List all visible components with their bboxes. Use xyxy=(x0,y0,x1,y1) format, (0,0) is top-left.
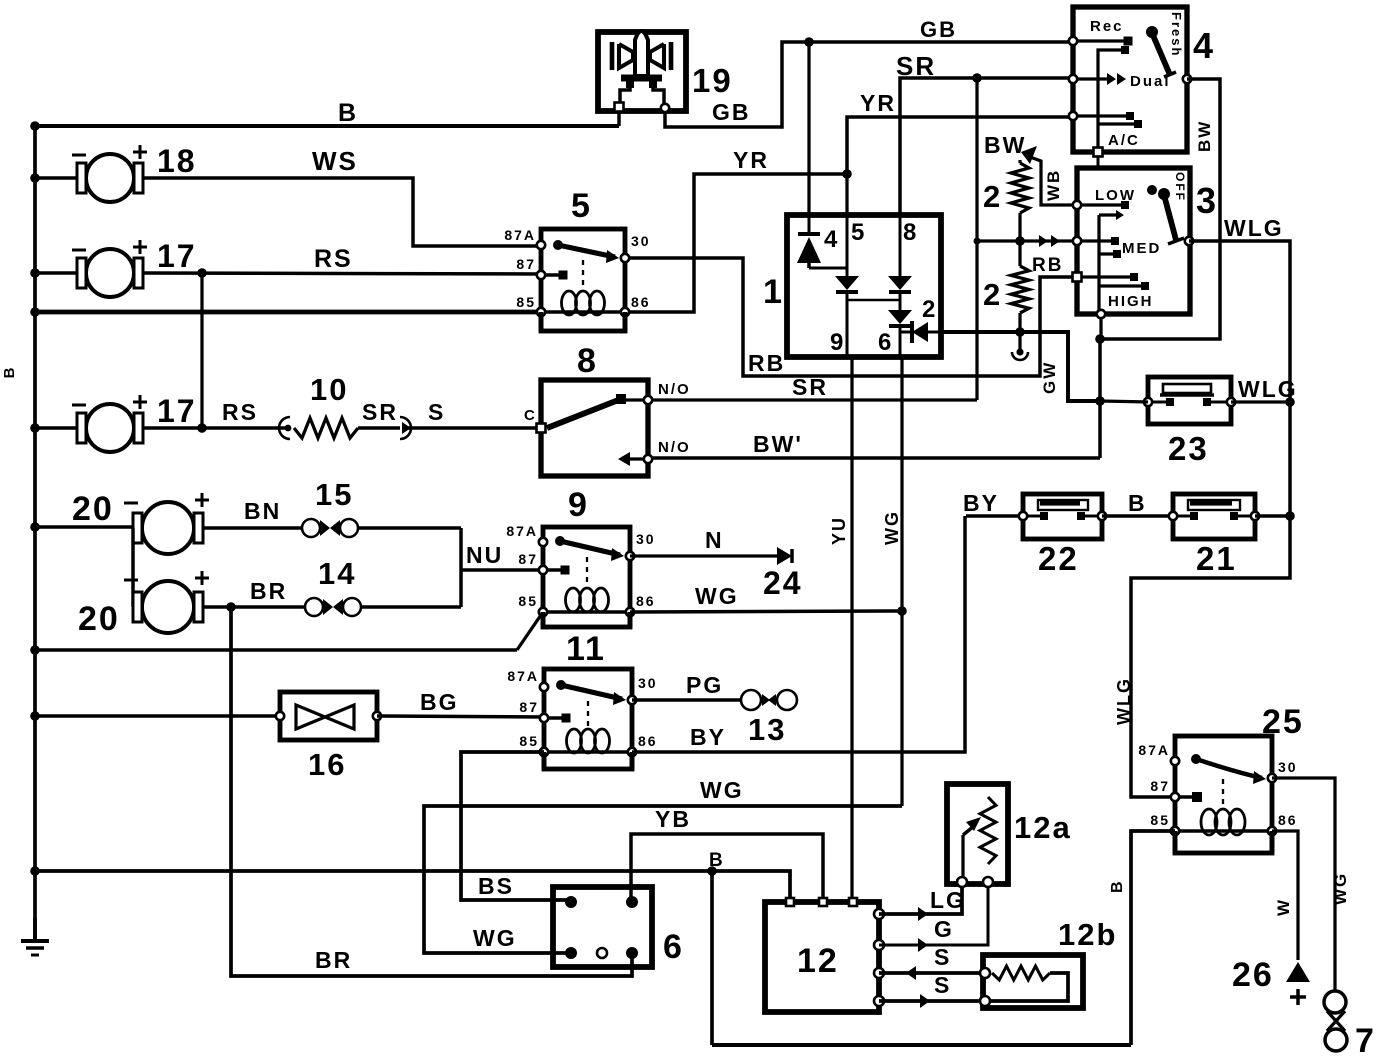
svg-text:85: 85 xyxy=(1150,812,1170,828)
switch 4 common stub to switch 3 xyxy=(1096,157,1099,168)
svg-text:RS: RS xyxy=(314,245,353,273)
horn 19 box xyxy=(598,32,686,111)
svg-text:WB: WB xyxy=(1044,169,1063,201)
resistor 2 lower xyxy=(1011,266,1029,313)
svg-text:BR: BR xyxy=(315,947,352,973)
relay 5 box xyxy=(541,229,625,331)
svg-text:BW: BW xyxy=(1195,120,1214,152)
wire fuse 21 to WLG vertical xyxy=(1255,514,1290,517)
svg-text:WG: WG xyxy=(700,777,744,803)
svg-text:YU: YU xyxy=(829,516,849,545)
motor 20 link (minus side) xyxy=(131,528,134,607)
relay 25 bottom edge xyxy=(1173,831,1178,853)
connector pin at resistor 10 right xyxy=(358,426,400,429)
wire switch 3 common down to BW xyxy=(1099,314,1102,339)
node RS junction xyxy=(197,268,207,278)
svg-text:87: 87 xyxy=(519,699,539,715)
svg-text:YB: YB xyxy=(655,806,691,832)
svg-text:W: W xyxy=(1274,898,1293,916)
wire BY from relay 11 86 xyxy=(632,516,965,752)
svg-text:WG: WG xyxy=(882,510,902,545)
svg-text:87A: 87A xyxy=(1138,742,1170,758)
svg-text:WG: WG xyxy=(695,583,739,609)
relay 9 85-86 line xyxy=(543,610,630,613)
svg-text:WLG: WLG xyxy=(1114,677,1134,725)
svg-text:24: 24 xyxy=(763,565,803,601)
wire 23 left lead xyxy=(1100,401,1148,402)
blower switch 3 box xyxy=(1077,168,1190,314)
box 6 terminals xyxy=(565,896,577,908)
resistor 2 upper xyxy=(1018,160,1021,163)
amplifier box 1 xyxy=(787,215,941,357)
fuse 22 box xyxy=(1023,494,1102,539)
wire WG from relay 25 30 to connector 7 xyxy=(1272,778,1335,992)
switch 8 lower contact xyxy=(626,457,648,460)
wire YB unit 12 to box 6 xyxy=(631,834,823,903)
diode D8 (pin 8 branch) xyxy=(898,215,901,276)
svg-text:30: 30 xyxy=(631,233,651,249)
wire B top horizontal xyxy=(35,124,619,128)
wire BW vertical to relay 8 line xyxy=(1098,339,1101,458)
svg-text:86: 86 xyxy=(636,593,656,609)
socket terminal below resistor chain xyxy=(1016,348,1023,355)
svg-text:3: 3 xyxy=(1196,180,1218,221)
node bus-B junction dots xyxy=(30,121,40,131)
svg-text:14: 14 xyxy=(318,556,356,591)
svg-text:87: 87 xyxy=(1150,778,1170,794)
relay 11 85-86 line xyxy=(544,750,632,753)
svg-text:B: B xyxy=(709,850,725,871)
relay 25 box xyxy=(1175,736,1272,853)
svg-text:30: 30 xyxy=(638,675,658,691)
relay 11 box xyxy=(544,669,632,769)
horn 19 icon xyxy=(635,31,648,76)
svg-text:25: 25 xyxy=(1262,703,1304,741)
diode D5 (pin 5 branch) xyxy=(845,215,848,276)
fuse 21 element xyxy=(1188,500,1240,510)
svg-text:21: 21 xyxy=(1196,540,1237,577)
svg-text:16: 16 xyxy=(308,747,346,782)
svg-text:2: 2 xyxy=(983,179,1002,214)
wire WB to switch 3 LOW xyxy=(1030,157,1077,205)
relay 5 dashed link xyxy=(582,260,584,289)
svg-text:MED: MED xyxy=(1122,240,1161,257)
svg-text:HIGH: HIGH xyxy=(1108,293,1154,310)
wire BG to relay 11 87 xyxy=(377,716,544,717)
svg-text:12: 12 xyxy=(797,942,839,980)
wire bus to motor 17 upper xyxy=(35,271,77,274)
wire 85 feed line (bus y650) xyxy=(35,648,517,651)
svg-text:A/C: A/C xyxy=(1108,132,1140,149)
wire NU to relay 9 87 xyxy=(461,568,543,571)
svg-text:4: 4 xyxy=(1193,25,1215,66)
svg-text:19: 19 xyxy=(692,62,733,99)
wire BR motor 20 to valve 14 xyxy=(203,605,306,608)
diode D2 (pin 2, horizontal) xyxy=(900,330,912,333)
svg-text:2: 2 xyxy=(922,296,937,323)
svg-text:NU: NU xyxy=(466,542,503,568)
node BW junction at switch 3 common xyxy=(1095,334,1105,344)
svg-text:87A: 87A xyxy=(504,227,536,243)
wire B between fuses xyxy=(1102,514,1173,517)
relay 9 box xyxy=(543,527,630,627)
svg-text:1: 1 xyxy=(763,273,784,311)
svg-text:C: C xyxy=(524,407,537,424)
switch 3 LOW contacts xyxy=(1077,203,1122,206)
wire B from relay 25 85 down to bottom run xyxy=(1131,831,1175,1045)
sensor 12a resistor xyxy=(980,797,996,864)
wire NU vertical link xyxy=(459,528,462,607)
wire BG bus to valve 16 xyxy=(35,714,280,717)
wire 85 line bus to relay 5 xyxy=(35,310,541,315)
relay 9 bottom edge xyxy=(541,612,546,627)
relay 9 dashed link xyxy=(586,557,588,586)
wire WLG from switch 3 arm to right side xyxy=(1131,241,1290,797)
svg-text:WS: WS xyxy=(312,146,358,176)
fuse 22 contacts xyxy=(1023,514,1041,517)
svg-text:85: 85 xyxy=(516,294,536,310)
wire SR top from amplifier pin 8 to switch 4 Dual xyxy=(900,78,1073,215)
wire B bus to unit 12 xyxy=(35,871,790,903)
wire resistor bottom stub to socket xyxy=(1018,313,1021,332)
svg-text:B: B xyxy=(1,366,18,379)
node SR-resistor tap xyxy=(974,238,981,245)
relay 5 bottom edge xyxy=(539,312,544,331)
node YR junction xyxy=(842,169,852,179)
svg-text:YR: YR xyxy=(860,90,896,116)
fuse 21 box xyxy=(1173,494,1255,539)
svg-text:26: 26 xyxy=(1232,956,1274,994)
pressure switch 8 box xyxy=(541,380,648,476)
horn 19 terminal wires xyxy=(620,84,630,103)
svg-text:BR: BR xyxy=(250,578,287,604)
svg-text:N/O: N/O xyxy=(658,381,691,398)
wire WG from relay 9 86 xyxy=(630,611,902,612)
wire WG vertical from amplifier pin 6 xyxy=(900,357,903,806)
svg-text:SR: SR xyxy=(362,399,398,425)
node BW-23 junction xyxy=(1095,396,1105,406)
connector 13 xyxy=(741,690,761,710)
svg-text:85: 85 xyxy=(519,733,539,749)
relay 11 arm xyxy=(556,680,566,690)
svg-text:13: 13 xyxy=(748,712,786,747)
relay 9 coil xyxy=(566,588,581,612)
relay 5 coil xyxy=(562,291,577,315)
connector socket at resistor 10 left xyxy=(279,417,290,439)
relay 9 87 contact xyxy=(543,568,562,571)
svg-text:9: 9 xyxy=(830,329,845,356)
wire GB branch to amplifier pin 4 xyxy=(807,42,810,215)
wire SR lower from pressure switch 8 xyxy=(648,398,977,401)
svg-text:7: 7 xyxy=(1355,1022,1376,1054)
wire BN motor 20 to valve 15 xyxy=(203,526,304,529)
wire horn left lead to B line xyxy=(617,111,620,126)
svg-text:5: 5 xyxy=(571,187,592,225)
svg-text:WLG: WLG xyxy=(1238,376,1298,402)
svg-text:N/O: N/O xyxy=(658,439,691,456)
svg-text:85: 85 xyxy=(518,593,538,609)
valve 14 xyxy=(305,598,323,616)
node RS-17 junction xyxy=(197,423,207,433)
wire RS link vertical xyxy=(200,273,203,428)
svg-text:S: S xyxy=(934,972,951,998)
svg-text:20: 20 xyxy=(78,600,120,638)
relay 25 coil xyxy=(1201,809,1217,835)
svg-text:BW': BW' xyxy=(753,431,803,457)
node SR junction top xyxy=(972,73,982,83)
node WLG-21 junction xyxy=(1285,511,1295,521)
svg-text:6: 6 xyxy=(663,928,684,966)
svg-text:RB: RB xyxy=(748,350,785,376)
wire S lower to 12b xyxy=(879,999,983,1003)
wire ground bus B (left vertical) xyxy=(33,126,37,941)
wire pin5-pin8 link xyxy=(847,299,900,302)
connector 7 xyxy=(1324,991,1346,1013)
wire 23 right lead xyxy=(1231,400,1290,403)
relay 25 85-86 line xyxy=(1175,829,1272,832)
wire YR upper run to switch 4 A/C xyxy=(847,117,1073,174)
wire LG to sensor 12a xyxy=(879,884,962,914)
unit 12 top terminals xyxy=(786,898,794,906)
valve 16 box xyxy=(280,692,377,740)
fuse 23 contacts xyxy=(1148,400,1168,403)
wire BW horizontal to pressure switch 8 xyxy=(648,456,1100,459)
relay 11 87 contact xyxy=(544,716,563,719)
motor 20 upper xyxy=(142,502,194,554)
wire PG from relay 11 30 xyxy=(632,698,744,701)
relay 11 bottom edge xyxy=(542,752,547,769)
wire BW from switch 4 down the right side xyxy=(1100,79,1220,339)
wire WS motor 18 to relay 5 87A xyxy=(143,178,541,246)
wire bus to motor 20 upper xyxy=(35,525,133,528)
switch 3 inner common xyxy=(1097,215,1100,314)
switch 4 arm xyxy=(1146,26,1158,38)
svg-text:YR: YR xyxy=(733,147,769,173)
svg-text:GW: GW xyxy=(1040,361,1059,394)
fuse 23 element xyxy=(1163,384,1211,393)
svg-text:5: 5 xyxy=(851,219,866,246)
motor 17 upper xyxy=(86,249,134,297)
svg-text:8: 8 xyxy=(903,219,918,246)
wire N from relay 9 30 xyxy=(630,554,777,557)
wire WG wrap to box 6 xyxy=(424,806,902,953)
svg-text:BG: BG xyxy=(420,689,459,715)
svg-text:LG: LG xyxy=(930,887,966,913)
wire RB from relay 5 t30 to blower switch 3 xyxy=(625,258,1077,376)
arrow 24 xyxy=(777,547,792,565)
sensor 12b outer box xyxy=(983,955,1083,1008)
unit 12 right terminals xyxy=(874,909,884,919)
wire valve 14 to NU corner xyxy=(361,605,461,608)
box 6 xyxy=(553,887,652,967)
svg-text:GB: GB xyxy=(920,17,957,42)
svg-text:S: S xyxy=(934,944,951,970)
svg-text:11: 11 xyxy=(566,630,606,668)
switch 3 terminals xyxy=(1073,201,1081,209)
node GB junction xyxy=(804,37,814,47)
sensor 12b resistor loop xyxy=(992,966,1050,980)
control switch 4 box xyxy=(1073,7,1187,152)
svg-text:LOW: LOW xyxy=(1095,187,1136,204)
wire SR vertical drop xyxy=(975,78,978,400)
relay 9 arm xyxy=(555,536,565,546)
wire BY to fuse 22 xyxy=(966,514,1023,517)
switch 4 inner common xyxy=(1098,50,1125,152)
wire diagonal to relay 9 85 xyxy=(517,612,543,650)
valve 15 xyxy=(302,519,320,537)
svg-text:OFF: OFF xyxy=(1173,172,1187,202)
relay 11 terminals xyxy=(540,683,548,691)
svg-text:B: B xyxy=(1109,879,1126,893)
switch 4 Rec contact xyxy=(1073,39,1126,42)
wire S to pressure switch 8 xyxy=(404,426,541,429)
wire bus to motor 17 lower xyxy=(35,426,77,429)
svg-text:12a: 12a xyxy=(1014,810,1072,845)
relay 25 87 contact xyxy=(1175,795,1194,798)
svg-text:23: 23 xyxy=(1168,430,1209,467)
svg-text:BS: BS xyxy=(478,873,514,899)
wire GB from horn to switch 4 xyxy=(665,42,1073,127)
node WG junction xyxy=(897,606,907,616)
relay 5 arm xyxy=(553,240,563,250)
svg-text:SR: SR xyxy=(792,374,828,400)
relay 11 dashed link xyxy=(587,701,589,727)
svg-text:Rec: Rec xyxy=(1090,18,1124,35)
sensor 12a box xyxy=(947,784,1008,884)
svg-text:6: 6 xyxy=(878,329,893,356)
node WLG-23 junction xyxy=(1285,397,1295,407)
wire YU vertical from amplifier pin 9 to unit 12 xyxy=(850,357,853,903)
wire W from relay 25 86 to 26 xyxy=(1272,831,1298,960)
switch 8 terminals xyxy=(537,424,546,433)
svg-text:WG: WG xyxy=(473,925,517,951)
svg-text:22: 22 xyxy=(1038,540,1079,577)
sensor 12b terminals xyxy=(980,968,990,978)
wire YR branch to amplifier pin 5 xyxy=(845,174,848,215)
svg-text:N: N xyxy=(705,527,724,553)
wire RS motor 17 to relay 5 87 xyxy=(143,273,541,274)
wire tap to resistor junction xyxy=(977,239,1020,242)
wire B bottom run xyxy=(712,1043,1131,1047)
switch 3 arm xyxy=(1147,185,1157,195)
svg-text:17: 17 xyxy=(157,238,197,274)
svg-text:87A: 87A xyxy=(506,523,538,539)
svg-text:RS: RS xyxy=(222,399,258,425)
wire valve 15 to NU corner xyxy=(358,526,461,529)
valve 16 terminals xyxy=(276,712,284,720)
node B junction xyxy=(707,866,717,876)
wire G to sensor 12a xyxy=(879,884,988,945)
arrow BW feed xyxy=(1021,146,1037,164)
node resistor mid junction xyxy=(1018,213,1021,266)
svg-text:GB: GB xyxy=(712,99,751,125)
sensor 12a arrow xyxy=(961,835,964,880)
svg-text:30: 30 xyxy=(636,531,656,547)
relay 5 87 contact xyxy=(541,273,560,276)
svg-text:WLG: WLG xyxy=(1224,215,1284,241)
svg-text:BY: BY xyxy=(963,490,999,516)
svg-text:18: 18 xyxy=(157,143,197,179)
plus sign 26 xyxy=(1290,995,1306,998)
relay 25 terminals xyxy=(1171,757,1179,765)
svg-text:S: S xyxy=(428,399,445,425)
wire BR long drop to box 6 xyxy=(231,607,632,976)
unit 12 box xyxy=(765,902,879,1012)
arrow 26 (battery feed) xyxy=(1286,962,1310,982)
resistor 10 xyxy=(294,418,358,438)
wire S upper to 12b xyxy=(879,971,983,975)
switch 8 arm xyxy=(547,399,621,428)
svg-text:B: B xyxy=(1128,490,1147,516)
svg-text:17: 17 xyxy=(157,393,197,429)
svg-text:12b: 12b xyxy=(1058,917,1117,952)
relay 11 coil xyxy=(567,729,582,753)
wire bus to motor 18 xyxy=(35,176,77,179)
svg-text:87A: 87A xyxy=(507,668,539,684)
svg-text:86: 86 xyxy=(638,733,658,749)
diode D8b lower xyxy=(898,292,901,310)
switch 4 A/C contacts xyxy=(1073,114,1128,117)
ground symbol xyxy=(33,918,37,941)
svg-text:SR: SR xyxy=(896,51,936,81)
horn 19 terminal right xyxy=(661,104,669,112)
wire B drop to bottom run xyxy=(710,871,714,1045)
relay 5 85-86 line xyxy=(541,310,625,313)
switch 4 terminals xyxy=(1069,37,1077,45)
svg-text:BW: BW xyxy=(984,132,1026,158)
wire BS from relay 11 85 to box 6 xyxy=(461,752,571,900)
svg-text:20: 20 xyxy=(72,490,114,528)
relay 9 terminals xyxy=(539,538,547,546)
svg-text:8: 8 xyxy=(577,342,598,380)
svg-text:RB: RB xyxy=(1032,255,1063,276)
svg-text:87: 87 xyxy=(516,256,536,272)
relay 25 dashed link xyxy=(1222,779,1224,807)
svg-text:PG: PG xyxy=(686,672,723,698)
svg-text:15: 15 xyxy=(315,477,353,512)
relay 25 arm xyxy=(1191,754,1201,764)
svg-text:BN: BN xyxy=(244,498,281,524)
svg-text:86: 86 xyxy=(1278,812,1298,828)
svg-text:9: 9 xyxy=(568,486,589,524)
svg-text:B: B xyxy=(338,99,358,127)
sensor 12a terminals xyxy=(957,877,967,887)
valve 16 symbol xyxy=(296,705,325,729)
svg-text:Fresh: Fresh xyxy=(1169,12,1184,57)
svg-text:86: 86 xyxy=(631,294,651,310)
switch 4 Dual contact xyxy=(1073,77,1108,80)
wire MED tap with connector chevrons xyxy=(1020,239,1077,242)
motor 18 xyxy=(86,154,134,202)
motor 17 lower xyxy=(86,404,134,452)
switch 3 MED contacts xyxy=(1077,239,1112,242)
fuse 23 terminals xyxy=(1144,398,1152,406)
motor 20 lower xyxy=(142,581,194,633)
svg-text:WG: WG xyxy=(1331,872,1350,905)
svg-text:BY: BY xyxy=(690,724,726,750)
horn 19 terminal left xyxy=(615,103,624,112)
svg-text:G: G xyxy=(934,916,954,942)
svg-text:87: 87 xyxy=(518,551,538,567)
wire YR from relay 5 t86 up and right to switch 4 xyxy=(625,174,847,312)
svg-text:10: 10 xyxy=(310,372,348,407)
svg-text:2: 2 xyxy=(983,277,1002,312)
thermo fuse 23 box xyxy=(1148,377,1231,424)
wire GW from amplifier pin 2 to thermo fuse 23 xyxy=(941,332,1100,401)
node BR junction xyxy=(226,602,236,612)
diode D4 (pin 4 branch) xyxy=(807,215,810,232)
svg-text:30: 30 xyxy=(1278,759,1298,775)
